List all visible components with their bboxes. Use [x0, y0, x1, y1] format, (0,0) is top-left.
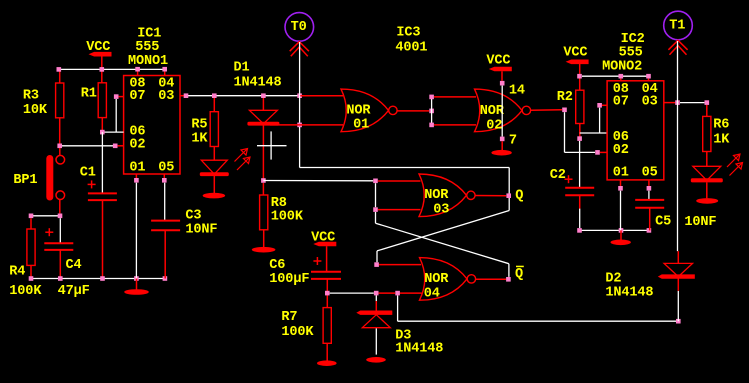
svg-text:BP1: BP1 — [13, 173, 37, 188]
svg-text:R6: R6 — [713, 118, 729, 133]
svg-text:03: 03 — [642, 94, 658, 109]
svg-text:1K: 1K — [191, 132, 208, 147]
svg-text:C6: C6 — [269, 258, 285, 273]
svg-text:C5: C5 — [655, 215, 671, 230]
svg-text:05: 05 — [642, 166, 658, 181]
svg-text:IC3: IC3 — [396, 26, 420, 41]
svg-text:MONO2: MONO2 — [602, 60, 642, 75]
svg-text:R2: R2 — [557, 90, 573, 105]
svg-text:Q: Q — [515, 267, 523, 282]
svg-text:C3: C3 — [185, 209, 201, 224]
svg-text:C2: C2 — [550, 168, 566, 183]
svg-text:D2: D2 — [605, 272, 621, 287]
svg-text:10NF: 10NF — [684, 215, 716, 230]
svg-text:D1: D1 — [234, 61, 250, 76]
svg-text:NOR: NOR — [346, 104, 371, 119]
svg-text:4001: 4001 — [395, 40, 427, 55]
svg-text:VCC: VCC — [311, 230, 335, 245]
svg-text:T0: T0 — [291, 20, 307, 35]
svg-text:10K: 10K — [23, 103, 48, 118]
svg-text:VCC: VCC — [563, 45, 587, 60]
svg-text:10NF: 10NF — [185, 223, 217, 238]
svg-text:1N4148: 1N4148 — [395, 342, 443, 357]
svg-text:C4: C4 — [66, 258, 82, 273]
svg-text:05: 05 — [158, 160, 174, 175]
svg-text:1K: 1K — [713, 132, 730, 147]
svg-text:07: 07 — [613, 94, 629, 109]
svg-text:100K: 100K — [281, 325, 314, 340]
svg-text:01: 01 — [353, 117, 369, 132]
svg-text:VCC: VCC — [86, 40, 110, 55]
svg-text:01: 01 — [613, 166, 629, 181]
svg-text:NOR: NOR — [424, 188, 449, 203]
svg-text:7: 7 — [509, 133, 517, 148]
svg-text:R8: R8 — [271, 196, 287, 211]
svg-text:VCC: VCC — [486, 54, 510, 69]
svg-text:R4: R4 — [9, 264, 25, 279]
svg-text:07: 07 — [129, 89, 145, 104]
svg-text:02: 02 — [613, 143, 629, 158]
svg-text:NOR: NOR — [480, 104, 505, 119]
svg-text:47µF: 47µF — [58, 284, 90, 299]
svg-text:01: 01 — [129, 160, 145, 175]
svg-text:02: 02 — [129, 138, 145, 153]
svg-text:100µF: 100µF — [269, 272, 309, 287]
svg-text:T1: T1 — [669, 19, 685, 34]
svg-text:MONO1: MONO1 — [128, 54, 168, 69]
svg-text:02: 02 — [486, 118, 502, 133]
svg-text:100K: 100K — [271, 210, 304, 225]
svg-text:04: 04 — [424, 286, 440, 301]
svg-text:R1: R1 — [81, 87, 97, 102]
svg-text:C1: C1 — [80, 166, 96, 181]
svg-text:03: 03 — [158, 89, 174, 104]
svg-text:1N4148: 1N4148 — [605, 286, 653, 301]
svg-text:03: 03 — [433, 203, 449, 218]
svg-text:Q: Q — [515, 189, 523, 204]
svg-text:14: 14 — [509, 84, 525, 99]
svg-text:R5: R5 — [191, 117, 207, 132]
svg-text:555: 555 — [619, 46, 643, 61]
svg-text:R7: R7 — [281, 310, 297, 325]
svg-text:R3: R3 — [23, 89, 39, 104]
svg-text:555: 555 — [135, 40, 159, 55]
svg-text:NOR: NOR — [424, 272, 449, 287]
svg-text:1N4148: 1N4148 — [234, 76, 282, 91]
svg-text:100K: 100K — [9, 284, 42, 299]
